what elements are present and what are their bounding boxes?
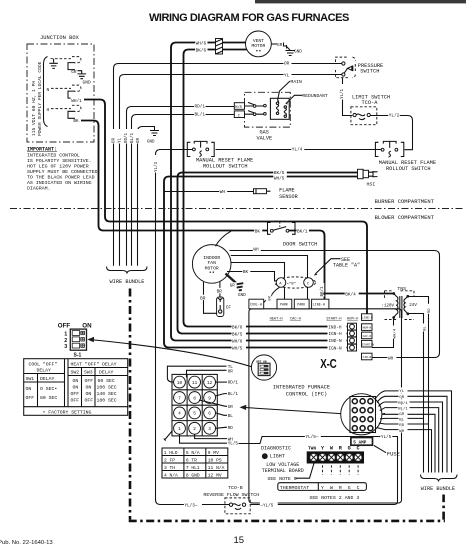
label WH/6 <box>195 40 208 46</box>
svg-text:2: 2 <box>193 427 196 432</box>
svg-text:WH: WH <box>388 357 394 362</box>
svg-text:BK/1: BK/1 <box>320 286 325 297</box>
svg-text:6 TR: 6 TR <box>186 457 197 463</box>
svg-text:YL/5: YL/5 <box>228 441 239 446</box>
svg-text:Pub. No. 22-1640-13: Pub. No. 22-1640-13 <box>0 540 53 546</box>
svg-text:SEE NOTE 5: SEE NOTE 5 <box>267 476 296 482</box>
svg-text:GR: GR <box>228 405 234 410</box>
motor BR wire left <box>204 282 217 313</box>
svg-text:GR: GR <box>137 137 141 143</box>
left manual reset flame rollout switch <box>187 140 215 157</box>
svg-text:DELAY: DELAY <box>99 370 114 376</box>
svg-text:TABLE "A": TABLE "A" <box>333 262 360 268</box>
svg-text:SW1: SW1 <box>26 376 35 382</box>
motor wire to PARK <box>231 263 285 300</box>
door switch <box>268 221 296 234</box>
terminal PARK 1 <box>277 299 292 309</box>
label YL on wire <box>284 72 292 78</box>
svg-text:2: 2 <box>64 338 67 344</box>
terminal HUM-N <box>362 324 373 331</box>
svg-text:ROLLOUT SWITCH: ROLLOUT SWITCH <box>386 166 431 172</box>
svg-text:••: •• <box>209 270 215 276</box>
motor BR wire right <box>219 282 221 298</box>
svg-text:PARK: PARK <box>280 303 288 307</box>
svg-text:C: C <box>357 445 360 451</box>
svg-text:1: 1 <box>64 332 67 338</box>
svg-text:DELAY: DELAY <box>40 376 55 382</box>
svg-text:12: 12 <box>207 381 213 386</box>
svg-text:INDOOR: INDOOR <box>203 255 220 261</box>
svg-text:60 SEC: 60 SEC <box>98 378 115 384</box>
label WH/5 <box>273 175 287 180</box>
svg-text:BK/6: BK/6 <box>232 326 243 331</box>
svg-text:RD: RD <box>428 308 432 313</box>
svg-text:8 GND: 8 GND <box>186 472 200 478</box>
svg-text:DIAGNOSTIC: DIAGNOSTIC <box>261 446 291 452</box>
svg-text:WH/6: WH/6 <box>196 41 207 46</box>
svg-text:ROLLOUT SWITCH: ROLLOUT SWITCH <box>203 164 248 170</box>
svg-text:YL/4: YL/4 <box>292 148 303 153</box>
svg-text:Y: Y <box>321 485 324 491</box>
fan wire BL/1 <box>380 408 439 473</box>
junction box dash-dot border <box>27 44 94 142</box>
svg-text:CAC-N: CAC-N <box>363 335 372 338</box>
svg-text:140 SEC: 140 SEC <box>97 391 117 397</box>
svg-text:MAIN: MAIN <box>291 79 302 85</box>
svg-text:YL: YL <box>119 137 123 143</box>
svg-text:BK: BK <box>243 270 249 275</box>
svg-text:BK/1: BK/1 <box>297 230 308 235</box>
svg-text:YL/3: YL/3 <box>154 161 159 172</box>
svg-text:START-N: START-N <box>362 343 374 346</box>
svg-text:180 SEC: 180 SEC <box>97 397 117 403</box>
svg-text:12 MV: 12 MV <box>208 472 222 478</box>
fan wire WH <box>377 428 432 473</box>
svg-text:INTEGRATED FURNACE: INTEGRATED FURNACE <box>273 385 330 391</box>
wire YL/4 left rollout to right rollout <box>209 149 382 151</box>
connector WH/1 <box>68 85 81 98</box>
svg-text:4 N/A: 4 N/A <box>164 472 178 478</box>
wire BK/1 door switch to LINE-H <box>289 231 324 300</box>
motor wire to connector C and PARK <box>231 256 308 300</box>
svg-text:6: 6 <box>208 412 211 417</box>
svg-text:O SEC•: O SEC• <box>40 386 57 392</box>
wire BK/6 vent motor to IND-H <box>184 50 348 327</box>
wire OR vertical+horizontal to pressure switch <box>114 64 342 266</box>
svg-text:R: R <box>339 485 342 491</box>
svg-text:TCO-A: TCO-A <box>362 100 379 106</box>
svg-text:WH: WH <box>399 430 404 434</box>
svg-text:SW3: SW3 <box>84 370 93 376</box>
terminal LINE-N <box>362 314 373 321</box>
terminal LINE-H <box>312 299 329 309</box>
svg-text:C: C <box>238 114 240 118</box>
svg-text:24V: 24V <box>409 304 417 308</box>
rotated wire labels OR YL RD/1 BL/1 GR <box>109 129 141 144</box>
svg-text:FUSE: FUSE <box>387 451 400 457</box>
svg-text:BK: BK <box>73 119 79 124</box>
IND/IGN labels <box>328 323 347 351</box>
svg-text:OFF: OFF <box>58 322 71 329</box>
svg-text:ON: ON <box>86 384 92 390</box>
wire BL/1 from pin 9 <box>215 394 227 396</box>
svg-text:CONTROL (IFC): CONTROL (IFC) <box>286 391 327 397</box>
svg-text:BK/5: BK/5 <box>232 332 243 337</box>
svg-text:1 HLO: 1 HLO <box>164 450 178 456</box>
svg-text:BR: BR <box>217 290 223 295</box>
connector BK <box>68 105 81 118</box>
fuse 5 AMP <box>351 438 373 446</box>
svg-text:IS POLARITY SENSITIVE.: IS POLARITY SENSITIVE. <box>27 158 92 164</box>
connector oval A B C <box>275 277 316 288</box>
mini dip switch in circle <box>251 355 276 380</box>
fan wire RD/1 <box>379 402 443 473</box>
svg-text:HUM-N: HUM-N <box>363 327 372 330</box>
svg-text:C: C <box>357 485 360 491</box>
svg-text:• FACTORY SETTING: • FACTORY SETTING <box>43 409 92 415</box>
wire RD/1 vertical+horizontal to gas valve M/R <box>127 107 235 266</box>
junction box voltage text <box>31 61 43 136</box>
svg-text:BL/1: BL/1 <box>130 132 135 143</box>
svg-text:SENSOR: SENSOR <box>279 194 298 200</box>
gas valve dashed box <box>245 92 291 127</box>
svg-text:S-1: S-1 <box>74 352 82 358</box>
motor BK wire to connector A and COOL-H <box>227 272 280 304</box>
svg-text:CIR-N: CIR-N <box>363 356 372 359</box>
svg-text:7 HL1: 7 HL1 <box>186 465 200 471</box>
vent motor gnd connector squiggle <box>284 43 287 49</box>
right manual reset flame rollout switch <box>375 140 404 157</box>
svg-text:1: 1 <box>178 427 181 432</box>
svg-text:IGN-H: IGN-H <box>329 332 343 337</box>
wire YL/5 run to reverse flow switch <box>239 437 398 505</box>
label BK/6 <box>195 47 208 53</box>
fan wire BL <box>380 417 424 419</box>
svg-text:BK/6: BK/6 <box>196 48 207 53</box>
connector circle A <box>276 278 286 288</box>
indoor fan motor <box>192 245 231 284</box>
IFC outer box <box>249 309 402 503</box>
connector keying stub <box>164 431 173 441</box>
wire GR from pin 8 <box>199 400 227 406</box>
svg-text:8: 8 <box>193 396 196 401</box>
svg-text:SEE NOTES 2 AND 3: SEE NOTES 2 AND 3 <box>309 495 359 501</box>
svg-text:OFF: OFF <box>26 395 35 401</box>
svg-text:9: 9 <box>208 396 211 401</box>
svg-text:10 PS: 10 PS <box>208 457 222 463</box>
cabinet dash-dot border <box>129 289 445 521</box>
svg-text:IND-H: IND-H <box>328 326 342 331</box>
svg-text:INTEGRATED CONTROL: INTEGRATED CONTROL <box>27 153 80 159</box>
svg-text:TO THE BLACK POWER LEAD: TO THE BLACK POWER LEAD <box>27 175 95 181</box>
wire BL/1 vertical+horizontal to gas valve C <box>132 115 235 266</box>
svg-text:HEAT "OFF" DELAY: HEAT "OFF" DELAY <box>71 362 117 368</box>
label RD/1 on wire <box>194 103 206 109</box>
svg-text:11: 11 <box>192 381 198 386</box>
svg-text:BK: BK <box>255 230 261 235</box>
wire YL/1 pressure to limit switch <box>343 78 353 116</box>
svg-text:SUPPLY MUST BE CONNECTED: SUPPLY MUST BE CONNECTED <box>27 169 98 175</box>
svg-text:WIRE BUNDLE: WIRE BUNDLE <box>421 486 455 492</box>
svg-text:COOL "OFF": COOL "OFF" <box>29 362 58 368</box>
arrow leader to GR wire <box>243 407 341 413</box>
HSI igniter element <box>369 171 378 177</box>
svg-text:OFF: OFF <box>85 397 94 403</box>
svg-text:15: 15 <box>234 535 245 546</box>
svg-text:POWER SUPPLY PER LOCAL CODE: POWER SUPPLY PER LOCAL CODE <box>37 61 43 136</box>
svg-text:80 SEC: 80 SEC <box>40 395 57 401</box>
gas valve C connector box <box>234 111 244 118</box>
svg-text:WH: WH <box>253 248 259 253</box>
svg-text:4: 4 <box>178 412 181 417</box>
svg-text:WIRE BUNDLE: WIRE BUNDLE <box>110 279 145 285</box>
vent motor GR lead <box>271 43 277 45</box>
svg-text:CAC-H: CAC-H <box>290 318 301 322</box>
motor BK lead to door switch wire <box>216 231 232 246</box>
svg-text:11 N/A: 11 N/A <box>208 465 225 471</box>
svg-text:YL/5—: YL/5— <box>306 435 319 440</box>
svg-text:RD/1: RD/1 <box>124 132 129 143</box>
wire GR vertical+horizontal to chassis ground <box>138 127 155 266</box>
IND/IGN screw terminals <box>348 323 357 351</box>
svg-text:REVERSE FLOW SWITCH: REVERSE FLOW SWITCH <box>203 492 259 498</box>
delay settings table <box>24 359 128 416</box>
svg-text:BL: BL <box>228 414 234 419</box>
ground symbol in junction box <box>49 59 57 69</box>
wire BL transformer secondary bottom <box>408 314 424 473</box>
svg-text:ON: ON <box>86 391 92 397</box>
HSI connector <box>358 169 364 178</box>
connector circle C <box>304 278 314 288</box>
svg-text:GND: GND <box>147 141 155 145</box>
svg-text:BK/4: BK/4 <box>345 293 356 298</box>
svg-text:DIAGRAM.: DIAGRAM. <box>27 186 50 192</box>
wire BL from pin 6 <box>216 413 228 415</box>
capacitor CF <box>217 297 224 317</box>
svg-text:TCO-B: TCO-B <box>228 485 243 491</box>
svg-text:FAN: FAN <box>207 260 216 266</box>
svg-text:PARK: PARK <box>297 303 305 307</box>
svg-text:VALVE: VALVE <box>257 135 273 141</box>
svg-text:IGN-N: IGN-N <box>329 346 343 351</box>
label YL/5 bottom <box>260 502 278 508</box>
svg-text:G: G <box>348 485 351 491</box>
svg-text:GR: GR <box>277 43 283 48</box>
svg-text:M/R: M/R <box>235 105 242 110</box>
flame sensor <box>254 189 271 194</box>
wire RD transformer secondary top <box>408 297 429 473</box>
svg-text:GND: GND <box>294 50 302 55</box>
wire BK from junction box to door switch <box>81 121 268 231</box>
svg-text:•"B": •"B" <box>287 282 296 287</box>
svg-text:5: 5 <box>193 412 196 417</box>
wire YL vertical+horizontal to pressure switch <box>120 75 342 266</box>
svg-text:CF: CF <box>226 306 232 311</box>
vent motor <box>246 31 272 57</box>
svg-text:BK: BK <box>268 295 272 300</box>
svg-text:YL/5: YL/5 <box>381 435 392 440</box>
svg-text:OR: OR <box>284 62 290 67</box>
wire bundle brace left <box>107 267 148 274</box>
svg-text:JUNCTION BOX: JUNCTION BOX <box>40 35 80 41</box>
svg-text:YL: YL <box>284 73 290 78</box>
svg-text:DELAY: DELAY <box>37 368 52 374</box>
gas valve MAIN coil <box>276 102 278 114</box>
svg-text:5 AMP: 5 AMP <box>353 441 367 446</box>
low voltage terminal board <box>307 451 364 463</box>
svg-text:WH/1: WH/1 <box>71 99 82 104</box>
svg-text:ON: ON <box>82 322 92 329</box>
svg-text:RD/1: RD/1 <box>228 381 239 386</box>
vent motor ground symbol <box>286 47 296 56</box>
label 120V <box>381 302 396 308</box>
svg-text:OFF: OFF <box>85 378 94 384</box>
svg-text:GND: GND <box>83 79 92 85</box>
svg-text:GR: GR <box>71 70 77 75</box>
svg-text:FLAME: FLAME <box>279 188 295 194</box>
thermostat strip <box>278 483 367 491</box>
svg-text:RD/1: RD/1 <box>195 105 206 110</box>
svg-text:WH/5: WH/5 <box>274 176 285 181</box>
svg-text:BL/1: BL/1 <box>195 113 206 118</box>
svg-text:7: 7 <box>178 396 181 401</box>
label BL/1 on wire <box>194 111 206 117</box>
terminal CIR-N <box>362 353 373 360</box>
svg-text:H: H <box>47 107 50 113</box>
label YL/3 bottom <box>184 502 202 508</box>
transformer dashed outline <box>385 291 415 320</box>
svg-text:ON: ON <box>73 384 79 390</box>
svg-text:GR: GR <box>230 285 236 289</box>
circled 12-pin header on IFC <box>341 394 382 435</box>
label BK/5 <box>273 169 287 174</box>
svg-text:ON: ON <box>73 378 79 384</box>
chassis ground symbol <box>150 126 159 135</box>
leader arrow from mini dip to DIP switch <box>94 340 252 367</box>
wire bundle right brace <box>421 475 458 482</box>
fan wire RD <box>379 423 429 424</box>
svg-text:115 VOLT 60 HZ, 1 PH: 115 VOLT 60 HZ, 1 PH <box>31 81 37 136</box>
svg-text:X-C: X-C <box>320 358 336 371</box>
transformer windings <box>394 294 408 319</box>
terminal COOL-H <box>249 299 264 309</box>
gas valve switch contacts <box>245 102 267 115</box>
svg-text:WH: WH <box>220 190 226 195</box>
wire BK/5 HSI to IGN-H <box>178 173 358 334</box>
connector GR <box>68 57 81 70</box>
wire YL/2 to right rollout switch <box>370 116 412 150</box>
terminal letter labels <box>308 445 360 451</box>
svg-text:YL/1: YL/1 <box>340 88 345 99</box>
svg-text:START-H: START-H <box>326 318 341 322</box>
svg-text:TERMINAL BOARD: TERMINAL BOARD <box>262 468 304 474</box>
wire YL/3 long vertical <box>156 150 230 505</box>
terminal START-N <box>362 340 373 347</box>
svg-text:HSI: HSI <box>367 181 376 187</box>
flame sensor wire WH <box>164 191 253 193</box>
pressure switch <box>336 57 356 78</box>
svg-text:BL/1: BL/1 <box>228 392 239 397</box>
svg-text:3 TH: 3 TH <box>164 465 175 471</box>
svg-text:LIGHT: LIGHT <box>270 453 285 459</box>
wire YL/5 from pin 1 <box>180 434 228 443</box>
svg-text:WH/6: WH/6 <box>232 340 243 345</box>
svg-text:TWN: TWN <box>308 447 316 452</box>
svg-text:WIRING DIAGRAM FOR GAS FURNACE: WIRING DIAGRAM FOR GAS FURNACES <box>149 12 349 24</box>
pin function table <box>162 448 228 478</box>
svg-text:OR: OR <box>228 369 234 374</box>
svg-text:OR: OR <box>112 137 116 143</box>
wire OR to pin 11 <box>187 370 227 377</box>
svg-text:BR: BR <box>200 296 206 301</box>
svg-text:YL/2: YL/2 <box>389 114 400 119</box>
motor ground stub <box>226 274 237 284</box>
svg-text:ON: ON <box>26 386 32 392</box>
gas valve REDUNDANT coil <box>284 106 286 118</box>
svg-text:2 FP: 2 FP <box>164 457 175 463</box>
svg-text:IMPORTANT:: IMPORTANT: <box>27 147 57 153</box>
wire YL from pin10 <box>167 366 226 382</box>
svg-text:LINE-N: LINE-N <box>362 317 373 320</box>
svg-text:REDUNDANT: REDUNDANT <box>302 93 328 99</box>
svg-text::120V: :120V <box>382 304 395 308</box>
terminal PARK 2 <box>294 299 309 309</box>
svg-text:10: 10 <box>177 381 183 386</box>
svg-text:OFF: OFF <box>71 391 80 397</box>
wire RD/1 from pin 12 <box>216 381 228 383</box>
svg-text:LINE-H: LINE-H <box>313 303 325 307</box>
svg-text:SW2: SW2 <box>71 370 80 376</box>
wire RD from pin 3 <box>216 427 228 428</box>
svg-text:••: •• <box>255 49 261 55</box>
wire WH/6 vent motor to IND-N <box>171 43 347 341</box>
svg-text:AS INDICATED ON WIRING: AS INDICATED ON WIRING <box>27 180 92 186</box>
svg-text:3: 3 <box>64 344 67 350</box>
svg-text:N: N <box>47 87 50 93</box>
svg-text:5 N/A: 5 N/A <box>186 450 200 456</box>
svg-text:100 SEC: 100 SEC <box>97 384 117 390</box>
svg-text:IND-N: IND-N <box>329 339 343 344</box>
svg-text:BL: BL <box>423 326 427 331</box>
svg-text:WH/5: WH/5 <box>232 347 243 352</box>
ground symbol GND right of GR <box>78 71 87 79</box>
svg-text:—YL/5: —YL/5 <box>259 504 273 509</box>
svg-text:9 MV: 9 MV <box>208 450 219 456</box>
svg-text:YL/3—: YL/3— <box>185 504 198 509</box>
svg-text:3: 3 <box>208 427 211 432</box>
svg-text:W: W <box>330 485 333 491</box>
label WH on CIR-N wire <box>387 355 396 361</box>
svg-text:THERMOSTAT: THERMOSTAT <box>280 485 309 491</box>
vent motor connector hatch <box>216 39 223 55</box>
gas valve M/R connector box <box>234 103 244 110</box>
12-pin connector grid <box>164 374 218 440</box>
svg-text:GND: GND <box>238 293 246 298</box>
fan wire OR <box>377 396 447 472</box>
top black bar <box>255 0 466 3</box>
wire WH/5 HSI to IGN-N <box>164 177 358 348</box>
label OR on wire <box>284 60 292 66</box>
svg-text:BURNER COMPARTMENT: BURNER COMPARTMENT <box>375 198 435 205</box>
wire WH from pin 2 <box>195 434 227 438</box>
svg-text:G: G <box>348 445 351 451</box>
motor WH wire to CIR-N <box>230 251 440 358</box>
dashed drops to thermostat <box>323 465 359 475</box>
wire WH/1 from junction box to LINE-N <box>84 100 367 315</box>
svg-text:RD: RD <box>228 426 234 431</box>
terminal CAC-N <box>362 332 373 339</box>
svg-text:SWITCH: SWITCH <box>360 68 379 74</box>
